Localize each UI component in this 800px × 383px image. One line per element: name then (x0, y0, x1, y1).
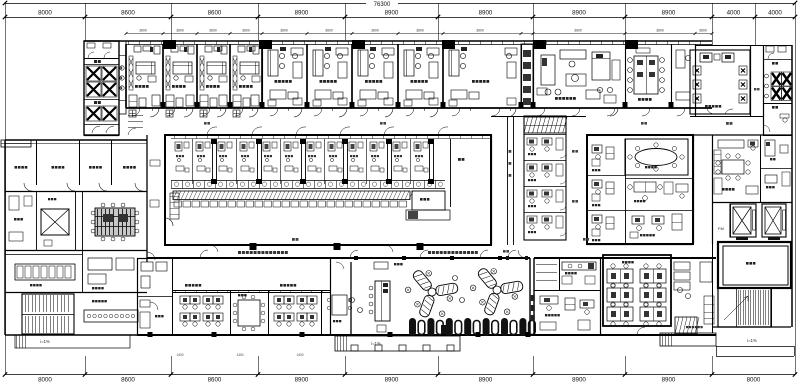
label male toilet right (772, 106, 775, 109)
dimension line overall top 76300 (5, 3, 795, 5)
platform entrance hatch (337, 336, 339, 351)
toilet male right fixtures (783, 118, 787, 122)
left corridor marks (150, 160, 160, 166)
VIP sofas top (700, 53, 712, 62)
duct shaft strip (119, 41, 126, 114)
wall top band corridor side (126, 107, 712, 109)
lounge bar counter (375, 281, 390, 321)
desk cluster bottom-left A (180, 296, 190, 304)
doors hall bottom (210, 245, 218, 252)
platform entrance stubs (351, 345, 358, 351)
toilet right wing top cisterns (763, 59, 792, 61)
fixture guest 2 (166, 110, 173, 117)
shaft strip x507-513 (507, 116, 509, 245)
wall right wing y135 part (763, 135, 792, 137)
desk cluster bottom-left B (274, 296, 284, 304)
machine room bold (718, 242, 791, 288)
rooms left wing row1 partitions (36, 140, 38, 185)
service office desks (540, 296, 558, 304)
elevator E1 (730, 204, 756, 237)
svg-text:8900: 8900 (572, 10, 586, 17)
toilet stalls female X (84, 64, 119, 66)
svg-text:8900: 8900 (662, 10, 676, 17)
elevator lobby left walls (75, 191, 77, 250)
label VIP room (705, 105, 708, 108)
svg-text:FM: FM (718, 226, 724, 231)
room T meeting table (634, 56, 658, 94)
lobby plant box hatched (675, 317, 697, 334)
elevator E2 (762, 204, 786, 237)
label hall production text left (238, 251, 241, 254)
wall toilet right y103 (763, 103, 792, 105)
door training room (637, 327, 645, 335)
lounge bin square (441, 325, 449, 334)
service rooms walls (559, 258, 561, 290)
stairs left block (22, 294, 74, 334)
wall left wing bottom (5, 334, 147, 336)
lounge armchair cluster A (435, 283, 458, 297)
closet shelves (536, 264, 557, 266)
stairs right wing treads (738, 290, 740, 325)
pantry furniture (562, 262, 596, 270)
machine room left kitchen (5, 254, 82, 256)
office block left cells (625, 139, 627, 244)
wall left wing row1 bottom (5, 191, 147, 193)
room office 3 furniture (358, 50, 368, 76)
wall right wing bottom (712, 326, 791, 328)
toilet top stalls (84, 58, 119, 60)
training desks grid (607, 269, 633, 283)
svg-text:i=1%: i=1% (371, 341, 381, 346)
wall partition office 2 (306, 44, 308, 108)
svg-text:1400: 1400 (296, 353, 303, 357)
wall central hall outline (165, 135, 491, 245)
svg-text:8900: 8900 (572, 377, 586, 383)
labels offices bottom-left (185, 284, 188, 287)
wall offices bottom-left partitions (172, 290, 174, 335)
wall hall right section (450, 139, 452, 207)
partition feet top band (161, 102, 166, 108)
door guest room 1 (150, 108, 159, 117)
wall partition guest room 3 (196, 44, 198, 108)
wall right edge (791, 45, 793, 327)
room executive suite furniture (541, 55, 555, 85)
wall lounge left x351 (350, 262, 352, 335)
hall rest room (412, 191, 445, 210)
door executive suite (610, 108, 618, 116)
platform right low strip (716, 346, 794, 348)
wall left wing y250 (5, 250, 147, 252)
svg-text:3600: 3600 (209, 29, 217, 33)
wall partition guest room 4 (229, 44, 231, 108)
hall lab bench band (171, 180, 445, 182)
room office 5 furniture (449, 50, 459, 76)
vestibule wall dark fixtures (531, 295, 535, 301)
svg-text:8900: 8900 (385, 10, 399, 17)
svg-text:3600: 3600 (416, 29, 424, 33)
svg-text:3600: 3600 (139, 29, 147, 33)
svg-text:8600: 8600 (208, 377, 222, 383)
label male toilet (94, 101, 97, 104)
wall right wing y135 (693, 134, 792, 136)
thresholds corridor top band (152, 108, 154, 111)
doors VIP room (707, 109, 715, 114)
room office 4 furniture (404, 50, 414, 76)
door guest room 3 (217, 108, 226, 117)
svg-text:3600: 3600 (325, 29, 333, 33)
door office 4 (430, 108, 438, 117)
wall bottom band bottom y335 (137, 334, 716, 336)
wall stair block right (718, 288, 771, 327)
wall right mid y244 (587, 244, 693, 246)
dimension extension lines top (5, 3, 7, 374)
offices column cells (524, 134, 566, 136)
svg-text:1400: 1400 (176, 353, 183, 357)
column feet bottom band wall (148, 332, 153, 337)
svg-text:i=1%: i=1% (40, 339, 50, 344)
svg-text:3600: 3600 (476, 29, 484, 33)
lounge reception desk top (374, 262, 388, 269)
door office 5 (508, 108, 516, 117)
fixture guest 3 (200, 110, 207, 117)
fixture guest 4 (233, 110, 240, 117)
office block mid room desks (625, 178, 693, 180)
label corridor right (726, 122, 729, 125)
wall elevator lobby x712 (712, 135, 714, 244)
fixture guest 1 (129, 110, 136, 117)
svg-text:3600: 3600 (656, 29, 664, 33)
hall work cell partitions (212, 139, 214, 184)
room right of stairs (771, 288, 773, 327)
room guest 1 furniture (129, 56, 133, 90)
dimension line bottom bays (5, 374, 795, 376)
wall partition x695 (695, 44, 697, 116)
wall bottom band left x137 (137, 258, 139, 335)
svg-text:3600: 3600 (242, 29, 250, 33)
room left empty 191-250 (36, 191, 38, 250)
wall partition guest room 2 (162, 44, 164, 108)
wall corridor x693 (693, 135, 695, 244)
wall partition x671 (671, 44, 673, 108)
wall toilet block outline (84, 41, 119, 135)
lounge luggage cylinder row (409, 318, 416, 336)
door office 3 (385, 108, 393, 117)
canopy top left (1, 140, 31, 147)
wall partition x625 (625, 44, 627, 108)
columns top wall (163, 40, 176, 49)
svg-text:3600: 3600 (699, 29, 707, 33)
wall partition office 1 (261, 44, 263, 108)
room left small fixtures (88, 258, 112, 270)
svg-text:3600: 3600 (371, 29, 379, 33)
VIP armchairs left (693, 66, 701, 75)
svg-text:8900: 8900 (662, 377, 676, 383)
door guest room 4 (249, 108, 258, 117)
door hall left (165, 218, 173, 226)
elevator E3 (41, 209, 69, 235)
dimension extension lines bottom (85, 356, 87, 375)
svg-text:76300: 76300 (374, 2, 391, 8)
label corridor mid (292, 238, 295, 241)
lobby small furniture (700, 262, 712, 282)
small rooms strip 137-172 (172, 258, 174, 290)
label shaft vertical (509, 150, 512, 153)
platform main entrance (335, 336, 460, 351)
door left corridor (147, 252, 155, 260)
label female toilet right (772, 62, 775, 65)
right wing dining extra (714, 150, 721, 174)
svg-text:1400: 1400 (236, 353, 243, 357)
wall vertical corridor x491 (491, 135, 493, 245)
lobby cabinets (674, 262, 690, 270)
wall rooms top y116 right of hall (491, 116, 586, 118)
wall partition office 3 (351, 44, 353, 108)
label corridor B vertical (572, 150, 575, 153)
platform right entrance (660, 333, 716, 346)
wall partition office 4 (397, 44, 399, 108)
svg-text:8900: 8900 (295, 377, 309, 383)
door office 2 (339, 108, 347, 117)
wall left corridor x147 (146, 135, 148, 262)
hall bottom column stubs (250, 243, 257, 250)
label corridor top band c (641, 122, 644, 125)
room small office 671-695 (676, 50, 685, 68)
svg-text:i=1%: i=1% (747, 338, 757, 343)
toilet right wing sinks (765, 74, 769, 78)
hall bottom dark room right (406, 210, 450, 220)
door guest room 2 (184, 108, 193, 117)
left corridor marks upper (128, 128, 136, 135)
svg-text:3600: 3600 (280, 29, 288, 33)
offices column outline (524, 116, 566, 240)
hall tray row (174, 201, 182, 207)
lounge armchair cluster B (500, 281, 523, 295)
label hall production text right (428, 251, 431, 254)
wall VIP corridor y116 (690, 116, 763, 118)
room office 2 furniture (313, 50, 323, 76)
label female toilet (94, 60, 97, 63)
wall partition office 5 (442, 44, 444, 108)
label corridor bottom b (583, 238, 586, 241)
wall partition guest room 1 (125, 44, 127, 108)
column feet bottom band top wall (354, 256, 358, 260)
svg-text:8600: 8600 (121, 10, 135, 17)
hall work cell equipment (175, 142, 182, 151)
wall right wing top (711, 44, 713, 45)
room guest 4 furniture (233, 56, 237, 90)
elevator sill marks (736, 237, 748, 240)
wall corridor x750 (750, 45, 752, 116)
reception counter left (84, 310, 138, 322)
wall left wing outline (4, 140, 6, 335)
svg-text:8000: 8000 (38, 10, 52, 17)
svg-text:3600: 3600 (574, 29, 582, 33)
dimension line room widths top (126, 33, 712, 35)
meeting room oval table (625, 139, 688, 175)
offices bottom-left window wall (172, 290, 330, 292)
wall entrance vestibule x530 x534 (529, 258, 531, 335)
wall bottom band top y258 (147, 257, 530, 259)
label corridor top band a (204, 122, 207, 125)
wall left wing y292 (5, 292, 147, 294)
lounge plant circles (350, 298, 355, 303)
doors corridor top band (132, 108, 140, 116)
wall office block bold outline (587, 135, 693, 244)
wall elevator room left (730, 204, 732, 237)
elevator lobby marks (44, 240, 52, 246)
rooms left wing row1 labels and doors (15, 166, 18, 169)
dimension line top bays (5, 17, 795, 19)
svg-text:8600: 8600 (121, 377, 135, 383)
office block bottom room (625, 210, 693, 212)
service shaft with equipment (521, 44, 533, 108)
svg-text:8900: 8900 (479, 10, 493, 17)
wall hall window top (171, 138, 491, 140)
meeting room bottom-left table (238, 300, 260, 326)
toilet right wing stalls dark (771, 72, 782, 86)
VIP armchairs right (739, 66, 747, 75)
room guest 3 furniture (200, 56, 204, 90)
window mullions hall top (174, 135, 176, 139)
wall partition x521 (521, 44, 523, 108)
platform left with slope (15, 335, 130, 348)
toilet vestibule doors (84, 124, 119, 126)
wall right wing y202 (712, 202, 792, 204)
door main entrance double (508, 250, 516, 258)
svg-text:8600: 8600 (208, 10, 222, 17)
label corridor right wing vertical (754, 88, 756, 90)
rooms right wing small stack (760, 168, 792, 170)
meeting room left (82, 191, 84, 250)
room small meeting 330-351 (332, 295, 347, 315)
doors bottom band top wall (200, 250, 208, 258)
wall partition x262 (262, 44, 264, 108)
doors hall top wall (207, 127, 217, 135)
door room 330-351 (336, 262, 344, 269)
svg-text:8000: 8000 (747, 377, 761, 383)
svg-text:8000: 8000 (38, 377, 52, 383)
svg-text:3600: 3600 (176, 29, 184, 33)
wall partition x533 (533, 44, 535, 108)
hall conveyor hatched band (173, 191, 410, 200)
escalator hatch block (524, 117, 566, 133)
window mullions top band (128, 41, 130, 45)
toilet sinks (120, 66, 124, 70)
training office bold outline (603, 255, 671, 326)
door office 1 (294, 108, 302, 117)
svg-text:4000: 4000 (768, 10, 782, 17)
wall corridor x763 (763, 45, 765, 135)
room VIP meeting outline (690, 50, 750, 114)
svg-text:8900: 8900 (295, 10, 309, 17)
hall lower equipment left (170, 193, 179, 219)
label corridor top band b (380, 122, 383, 125)
wall top band exterior window wall (84, 40, 712, 42)
svg-text:8900: 8900 (479, 377, 493, 383)
toilet stalls male X (84, 99, 119, 101)
label corridor bottom a (503, 250, 506, 253)
svg-text:4000: 4000 (727, 10, 741, 17)
svg-text:8900: 8900 (385, 377, 399, 383)
room right wing dining (760, 135, 762, 202)
room guest 2 furniture (166, 56, 170, 90)
room office 1 furniture (268, 50, 278, 76)
